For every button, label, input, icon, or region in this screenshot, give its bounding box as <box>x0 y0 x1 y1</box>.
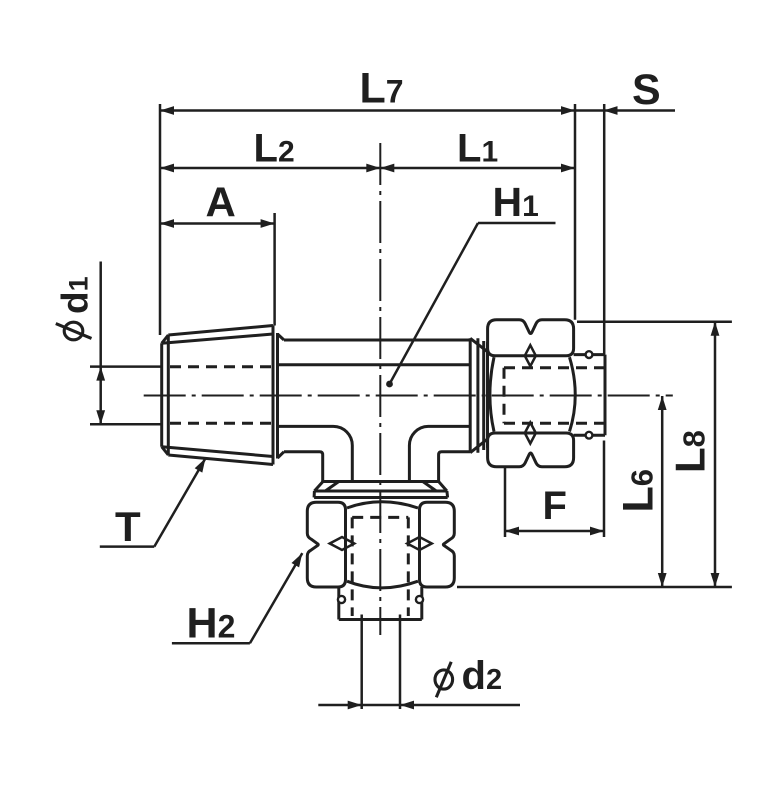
svg-text:A: A <box>206 179 236 226</box>
svg-text:L1: L1 <box>457 127 498 171</box>
svg-text:H1: H1 <box>493 179 539 225</box>
svg-text:L2: L2 <box>254 127 295 171</box>
svg-text:H2: H2 <box>187 600 236 648</box>
svg-text:d2: d2 <box>462 654 503 698</box>
svg-text:S: S <box>632 66 661 114</box>
svg-text:L6: L6 <box>615 469 663 513</box>
svg-text:d1: d1 <box>55 276 96 314</box>
svg-text:L8: L8 <box>667 430 714 473</box>
svg-text:T: T <box>115 503 141 550</box>
svg-text:F: F <box>543 484 567 528</box>
svg-text:L7: L7 <box>360 65 404 113</box>
